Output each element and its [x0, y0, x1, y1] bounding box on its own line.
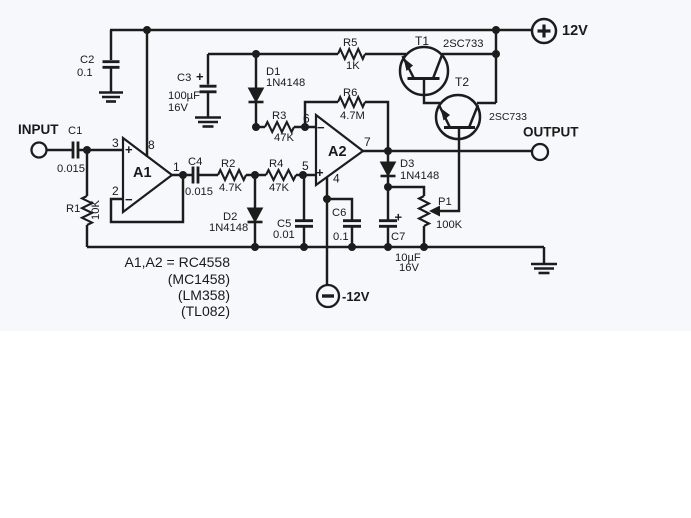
svg-text:A2: A2	[328, 144, 347, 160]
svg-text:+: +	[196, 69, 204, 84]
svg-text:+: +	[125, 142, 133, 157]
svg-text:100µF: 100µF	[168, 90, 200, 102]
svg-text:0.015: 0.015	[185, 186, 213, 198]
svg-text:2SC733: 2SC733	[489, 111, 527, 123]
svg-text:1N4148: 1N4148	[209, 222, 248, 234]
svg-text:+: +	[395, 210, 403, 225]
svg-text:0.01: 0.01	[273, 229, 295, 241]
svg-text:2SC733: 2SC733	[443, 38, 483, 50]
svg-text:+: +	[316, 165, 324, 180]
svg-text:(MC1458): (MC1458)	[168, 271, 230, 287]
svg-text:7: 7	[364, 135, 371, 149]
svg-text:47K: 47K	[269, 182, 289, 194]
svg-text:2: 2	[112, 184, 119, 198]
svg-text:0.1: 0.1	[333, 231, 349, 243]
svg-text:R1: R1	[66, 203, 80, 215]
svg-text:A1: A1	[133, 165, 152, 181]
svg-text:1: 1	[173, 160, 180, 174]
svg-text:16V: 16V	[168, 102, 188, 114]
svg-text:0.1: 0.1	[77, 67, 93, 79]
svg-text:16V: 16V	[399, 262, 419, 274]
svg-text:12V: 12V	[562, 23, 588, 39]
svg-text:(TL082): (TL082)	[181, 303, 230, 319]
svg-text:C6: C6	[332, 207, 346, 219]
svg-text:0.015: 0.015	[57, 163, 85, 175]
svg-text:6: 6	[303, 112, 310, 126]
svg-text:R6: R6	[343, 87, 357, 99]
svg-text:C4: C4	[188, 156, 202, 168]
svg-text:P1: P1	[438, 196, 452, 208]
svg-text:3: 3	[112, 136, 119, 150]
svg-text:R2: R2	[221, 158, 235, 170]
svg-text:1K: 1K	[346, 60, 360, 72]
svg-text:T2: T2	[455, 75, 469, 89]
svg-text:-12V: -12V	[342, 289, 370, 304]
svg-text:4.7K: 4.7K	[219, 182, 243, 194]
svg-text:C7: C7	[391, 231, 405, 243]
svg-text:C1: C1	[68, 125, 82, 137]
svg-text:D3: D3	[400, 158, 414, 170]
svg-text:8: 8	[148, 138, 155, 152]
svg-text:1N4148: 1N4148	[266, 77, 305, 89]
svg-text:−: −	[317, 120, 325, 135]
svg-text:R5: R5	[343, 37, 357, 49]
svg-text:R4: R4	[269, 158, 283, 170]
svg-text:INPUT: INPUT	[18, 122, 59, 137]
svg-text:10K: 10K	[90, 200, 102, 220]
svg-text:4.7M: 4.7M	[340, 110, 365, 122]
svg-text:T1: T1	[415, 34, 429, 48]
svg-text:A1,A2 = RC4558: A1,A2 = RC4558	[125, 254, 231, 270]
svg-text:C3: C3	[177, 72, 191, 84]
svg-text:4: 4	[333, 172, 340, 186]
svg-text:OUTPUT: OUTPUT	[523, 125, 579, 140]
svg-text:R3: R3	[272, 110, 286, 122]
svg-text:5: 5	[302, 159, 309, 173]
svg-text:47K: 47K	[274, 132, 294, 144]
svg-text:100K: 100K	[436, 219, 463, 231]
svg-text:−: −	[125, 192, 133, 207]
svg-text:(LM358): (LM358)	[178, 287, 230, 303]
svg-text:1N4148: 1N4148	[400, 170, 439, 182]
svg-text:C2: C2	[80, 54, 94, 66]
